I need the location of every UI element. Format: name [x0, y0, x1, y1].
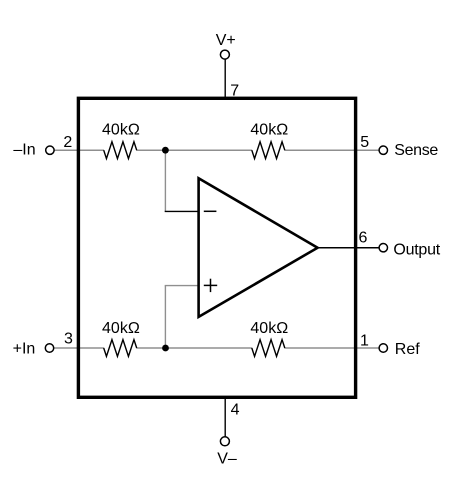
- terminal circle -In: [46, 146, 54, 154]
- wire: op-amp output to Output terminal: [318, 247, 380, 249]
- wire: +In pin 3 horizontal (left segment): [54, 347, 104, 349]
- terminal circle V+: [220, 50, 229, 59]
- svg-text:–In: –In: [13, 142, 35, 159]
- svg-text:V–: V–: [217, 451, 237, 468]
- svg-text:2: 2: [63, 134, 72, 151]
- wire: top row between resistors through node: [136, 149, 252, 151]
- terminal circle Output: [379, 244, 387, 252]
- svg-text:V+: V+: [216, 32, 236, 49]
- wire: stub into inverting (-) input (black): [165, 210, 199, 212]
- wire: bottom row between resistors through node: [136, 347, 252, 349]
- op-amp U1 triangle: [199, 178, 318, 317]
- svg-text:Ref: Ref: [395, 341, 420, 358]
- terminal circle Sense: [379, 146, 387, 154]
- svg-text:40kΩ: 40kΩ: [250, 320, 288, 337]
- wire: V+ supply vertical to pin 7: [224, 59, 226, 99]
- terminal circle +In: [45, 344, 53, 352]
- wire: vertical feed from bottom node up to non-inverting input: [164, 286, 166, 348]
- resistor R3 40k (bottom left): [104, 340, 137, 357]
- node junction dot bottom: [162, 345, 169, 352]
- op-amp inverting input minus sign: [204, 210, 217, 212]
- svg-text:40kΩ: 40kΩ: [102, 320, 140, 337]
- svg-text:40kΩ: 40kΩ: [250, 121, 288, 138]
- node junction dot top: [162, 147, 169, 154]
- resistor R1 40k (top left): [104, 142, 137, 159]
- svg-text:3: 3: [64, 331, 73, 348]
- svg-text:40kΩ: 40kΩ: [102, 122, 140, 139]
- svg-text:1: 1: [360, 333, 369, 350]
- wire: top row from right resistor to Sense terminal: [285, 149, 380, 151]
- svg-text:+In: +In: [13, 341, 36, 358]
- svg-text:4: 4: [231, 401, 240, 418]
- svg-text:7: 7: [230, 82, 239, 99]
- wire: V- supply vertical from pin 4: [224, 398, 226, 438]
- IC package box: [78, 98, 355, 397]
- terminal circle Ref: [379, 344, 387, 352]
- svg-text:Sense: Sense: [394, 142, 438, 159]
- op-amp non-inverting input plus sign: [204, 284, 217, 286]
- wire: bottom row from right resistor to Ref terminal: [285, 347, 380, 349]
- terminal circle V-: [220, 437, 229, 446]
- svg-text:6: 6: [359, 229, 368, 246]
- svg-text:5: 5: [360, 134, 369, 151]
- wire: vertical feed from top node down to inverting input: [164, 150, 166, 211]
- resistor R4 40k (bottom right): [252, 340, 285, 357]
- svg-text:Output: Output: [393, 242, 440, 259]
- wire: -In pin 2 horizontal (left segment): [54, 149, 104, 151]
- resistor R2 40k (top right): [252, 142, 285, 159]
- wire: stub into non-inverting (+) input: [165, 285, 199, 287]
